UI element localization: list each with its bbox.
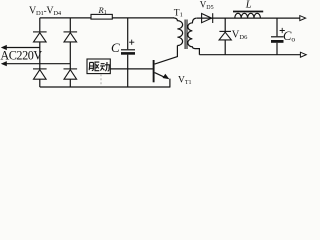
svg-text:AC220V: AC220V xyxy=(0,49,42,63)
svg-text:VD5: VD5 xyxy=(200,0,214,11)
svg-text:VT1: VT1 xyxy=(178,76,192,86)
svg-text:Co: Co xyxy=(283,29,295,44)
svg-text:T1: T1 xyxy=(174,8,183,18)
svg-text:VD1-VD4: VD1-VD4 xyxy=(29,6,62,18)
svg-text:L: L xyxy=(245,0,252,11)
svg-text:C: C xyxy=(111,40,120,55)
svg-text:R1: R1 xyxy=(98,5,107,16)
svg-text:VD6: VD6 xyxy=(232,30,248,41)
